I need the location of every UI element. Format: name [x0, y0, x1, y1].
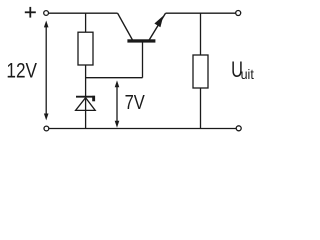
resistor R1 — [78, 32, 93, 65]
wire top right segment — [166, 12, 236, 14]
wire zener branch vertical — [85, 65, 87, 129]
wire base node horizontal — [86, 77, 143, 79]
transistor Q1 — [118, 13, 166, 42]
svg-text:7V: 7V — [125, 91, 145, 114]
wire load bottom lead — [200, 88, 202, 129]
12V measurement arrow — [44, 21, 49, 121]
svg-text:12V: 12V — [6, 59, 37, 83]
terminal top-left — [44, 11, 49, 16]
wire top left segment — [49, 12, 118, 14]
7V measurement arrow — [115, 80, 120, 127]
anode triangle — [76, 98, 96, 111]
wire base vertical — [142, 42, 144, 78]
emitter arrow — [154, 16, 163, 28]
resistor load R2 — [193, 55, 208, 88]
base bar — [127, 39, 155, 42]
terminal bottom-left — [44, 126, 49, 131]
wire load top lead — [200, 13, 202, 55]
terminal top-right — [236, 11, 241, 16]
wire bottom — [49, 128, 236, 130]
wire R1 top lead — [85, 13, 87, 32]
zener diode D1 — [76, 96, 96, 111]
collector lead — [118, 13, 133, 40]
cathode bar — [76, 96, 95, 98]
svg-text:uit: uit — [241, 66, 254, 82]
cathode hook — [92, 96, 95, 102]
emitter lead — [149, 13, 166, 40]
plus sign — [25, 7, 36, 18]
terminal bottom-right — [236, 126, 241, 131]
